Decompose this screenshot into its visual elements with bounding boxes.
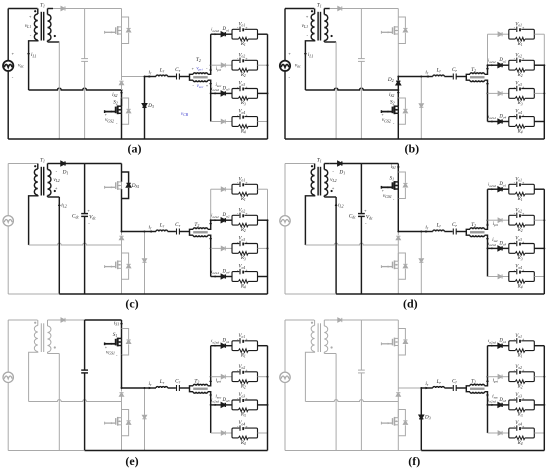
panel (e) transistor S2 gate bar [115, 418, 117, 425]
svg-text:Vo4: Vo4 [515, 265, 522, 270]
svg-text:+: + [12, 51, 15, 56]
svg-text:R4: R4 [240, 129, 246, 134]
panel (f) transformer T1 secondary winding [323, 320, 325, 326]
panel (b) battery Vo3 [516, 86, 518, 91]
panel (f) wire bridge rail top [397, 320, 399, 338]
panel (d) capacitor Cdc [358, 213, 365, 215]
panel (d) body diode S1 loop [398, 172, 405, 183]
panel (f) transformer T2 core [470, 388, 485, 390]
panel (a) battery Vo4 [239, 114, 241, 119]
panel (a) resistor R4 [238, 125, 248, 129]
panel (b) body diode S1 symbol [403, 28, 407, 32]
panel (e) diode Do2 [221, 375, 225, 379]
panel (d) wire T2 secondary to branch column down [485, 235, 488, 276]
panel (e) wire branch 3 feeder [211, 404, 221, 406]
panel (a) wire branch 4 to right rail [258, 121, 268, 123]
panel (a) transistor S1 rail through segment [121, 27, 123, 34]
svg-text:Do4: Do4 [222, 270, 230, 275]
panel (e) body diode S1 symbol [127, 340, 131, 344]
panel (e) wire branch 2 to right rail [258, 376, 268, 378]
panel (c) wire rail D2 to S2 [121, 245, 123, 253]
svg-text:+: + [245, 425, 247, 429]
panel (c) node tank junction [144, 231, 146, 233]
svg-text:Vo3: Vo3 [515, 393, 522, 398]
panel (d) node branch2 tap [487, 219, 489, 221]
panel (e) wire D3 rail upper [144, 388, 146, 415]
panel (f) diode D3 [419, 415, 423, 419]
panel (a) wire secondary top elbow [48, 8, 54, 10]
panel (a) transistor S1 drain/source taps [118, 26, 122, 28]
panel (c) body diode S2 symbol [127, 264, 131, 268]
svg-text:+: + [105, 346, 107, 350]
panel (d) transistor S1 channel bar [394, 181, 396, 190]
panel (d) wire branch 4 feeder [488, 276, 498, 278]
panel (d) wire T2 primary to branch column [485, 220, 488, 229]
panel (f) wire Cdc node to bridge rail [361, 319, 398, 321]
panel (a) battery Vo2 [239, 58, 241, 63]
panel (e) wire rail D2 to S2 [121, 402, 123, 410]
panel (b) wire branch 4 to right rail [534, 121, 544, 123]
panel (a) body diode S1 symbol [127, 28, 131, 32]
panel (d) wire rail D2 to S2 [397, 245, 399, 253]
panel (c) wire bridge rail top [121, 164, 123, 182]
panel (e) body diode S1 loop [122, 329, 129, 340]
panel (b) transistor S2 [397, 98, 399, 106]
svg-text:(f): (f) [408, 454, 420, 468]
panel (f) transistor S2 drain/source taps [395, 417, 399, 419]
panel (e) wire right rail [267, 346, 269, 451]
svg-text:R3: R3 [240, 413, 246, 418]
panel (f) wire Cdc rail lower [360, 373, 362, 451]
panel (b) labels iS2 S2 vGS2 [397, 92, 400, 96]
panel (d) node branch3 tap [487, 247, 489, 249]
panel (f) wire branch 4 feeder [488, 432, 498, 434]
svg-text:R1: R1 [517, 354, 523, 359]
panel (c) wire secondary rail [58, 197, 60, 294]
panel (d) wire rail S2 to bottom [397, 268, 399, 294]
panel (e) label ir with arrow [149, 387, 153, 390]
panel (d) wire branch 2 feeder [488, 219, 498, 221]
panel (f) wire left vertical from source [284, 320, 286, 373]
panel (f) load loop branch 4 [509, 428, 535, 438]
panel (a) wire Cdc rail upper [84, 9, 86, 59]
svg-text:Do2: Do2 [222, 213, 230, 218]
panel (e) wire bridge rail top [121, 320, 123, 338]
panel (f) body diode S2 loop [398, 410, 405, 421]
svg-text:Vo1: Vo1 [238, 334, 245, 339]
panel (f) diode Do1 [498, 344, 502, 348]
panel (d) transformer T2 secondary winding [470, 235, 485, 236]
panel (f) wire Cr to T2 [456, 387, 466, 389]
panel (f) wire D1 to Cdc node [342, 319, 362, 321]
panel (f) wire midpoint to tank node [398, 387, 421, 389]
panel (f) transistor S2 [397, 410, 399, 418]
panel (b) battery Vo2 [516, 58, 518, 63]
panel (e) wire bottom black part [85, 450, 268, 452]
panel (a) load loop branch 1 [232, 29, 258, 39]
panel (b) wire branch 3 feeder [488, 92, 498, 94]
panel (c) wire left vertical from source [7, 164, 9, 217]
svg-text:R4: R4 [240, 284, 246, 289]
panel (a) wire top-left [8, 8, 37, 10]
panel (e) load loop branch 2 [232, 372, 258, 382]
panel (c) wire branch 2 to right rail [258, 219, 268, 221]
panel (e) diode Do4 [221, 431, 225, 435]
svg-text:Vo1: Vo1 [238, 22, 245, 27]
svg-text:ipri: ipri [493, 379, 498, 384]
panel (f) transformer T2 secondary winding [470, 392, 485, 393]
panel (e) wire secondary top elbow [48, 319, 54, 321]
panel (f) diode D1 [338, 318, 342, 322]
panel (b) node branch2 tap [487, 64, 489, 66]
svg-text:vpri: vpri [196, 66, 202, 71]
panel (e) wire Cr to T2 [179, 387, 189, 389]
panel (b) diode Do2 [498, 63, 502, 67]
panel (d) AC source vac [280, 216, 290, 226]
panel (c) wire branch 2 feeder [211, 219, 221, 221]
svg-text:Vo4: Vo4 [238, 110, 245, 115]
panel (d) wire bottom black part [336, 293, 544, 295]
panel (d) load loop branch 2 [509, 215, 535, 225]
panel (e) wire Lr to Cr [168, 387, 176, 389]
svg-text:R2: R2 [240, 73, 246, 78]
panel (e) capacitor Cdc [81, 369, 88, 371]
panel (a) resistor R1 [238, 37, 248, 41]
svg-text:+: + [245, 181, 247, 185]
panel (d) load loop branch 3 [509, 244, 535, 254]
panel (c) wire branch 1 feeder [211, 188, 221, 190]
panel (a) diode D3 [142, 104, 146, 108]
panel (c) wire branch column up to branch 1 idle [210, 189, 212, 220]
panel (c) wire branch 3 feeder [211, 247, 221, 249]
panel (b) transistor S1 gate lead [381, 31, 392, 33]
panel (f) transformer T1 core [317, 323, 319, 352]
panel (b) resistor R2 [515, 68, 525, 72]
panel (d) transistor S2 gate lead [381, 266, 392, 268]
panel (a) label ir with arrow [149, 75, 153, 78]
panel (c) diode D1 [61, 161, 65, 165]
panel (d) battery Vo2 [516, 213, 518, 218]
panel (f) wire rail D2 to S2 [397, 402, 399, 410]
panel (e) transformer T2 primary winding [193, 384, 208, 385]
svg-text:Vo2: Vo2 [238, 208, 245, 213]
panel (c) diode Do1 [221, 187, 225, 191]
panel (c) inductor Lr [156, 230, 168, 231]
panel (f) wire branch 1 feeder [488, 345, 498, 347]
panel (e) wire branch 3 to right rail [258, 404, 268, 406]
panel (b) wire T2 primary to branch column [485, 65, 488, 74]
panel (b) wire Cdc node to bridge rail [361, 8, 398, 10]
svg-text:+: + [364, 208, 367, 213]
panel (f) transformer T1 primary winding [314, 320, 316, 326]
panel (c) load loop branch 2 [232, 215, 258, 225]
panel (e) load loop branch 1 [232, 341, 258, 351]
panel (a) wire primary return [29, 40, 38, 90]
svg-text:Vo2: Vo2 [238, 53, 245, 58]
panel (d) wire Cdc rail upper [360, 164, 362, 214]
panel (a) transistor S2 gate lead [105, 111, 116, 113]
svg-text:(e): (e) [125, 454, 138, 468]
svg-text:Vo3: Vo3 [238, 237, 245, 242]
panel (a) diode Do3 [221, 91, 225, 95]
panel (c) wire D3 rail upper [144, 232, 146, 259]
panel (b) wire T2 secondary to branch column down [485, 80, 488, 121]
panel (e) node tank junction [144, 387, 146, 389]
panel (e) transformer T1 primary winding [37, 320, 39, 326]
panel (f) wire branch 2 to right rail [534, 376, 544, 378]
panel (d) wire left vertical from source [284, 164, 286, 217]
panel (f) transistor S2 rail through segment [397, 418, 399, 425]
panel (d) inductor Lr [433, 230, 445, 231]
panel (e) battery Vo1 [239, 338, 241, 343]
panel (d) diode Do3 [498, 246, 502, 250]
svg-text:Vo2: Vo2 [515, 365, 522, 370]
panel (e) wire top-left [8, 319, 37, 321]
panel (e) node midpoint [121, 387, 123, 389]
panel (e) load loop branch 3 [232, 400, 258, 410]
svg-text:Vo1: Vo1 [238, 177, 245, 182]
panel (b) resistor R4 [515, 125, 525, 129]
panel (a) node branch2 tap [210, 64, 212, 66]
svg-text:R1: R1 [240, 42, 246, 47]
svg-text:(d): (d) [403, 297, 418, 311]
panel (a) wire branch 2 feeder [211, 64, 221, 66]
panel (c) wire Lr to Cr [168, 231, 176, 233]
panel (c) transistor S2 channel bar [117, 260, 119, 269]
panel (b) transistor S2 channel bar [394, 105, 396, 114]
svg-text:+: + [522, 114, 524, 118]
panel (d) wire bridge rail to midpoint [397, 199, 399, 232]
panel (e) battery Vo4 [239, 425, 241, 430]
panel (a) wire Cdc node to bridge rail [85, 8, 122, 10]
panel (c) wire branch 1 to right rail [258, 188, 268, 190]
panel (c) transformer T1 core [40, 167, 42, 196]
panel (d) wire branch 2 to right rail [534, 219, 544, 221]
svg-text:R4: R4 [517, 441, 523, 446]
panel (f) wire rail S2 to bottom [397, 425, 399, 451]
panel (f) body diode S1 loop [398, 329, 405, 340]
panel (a) wire branch 1 to right rail [258, 33, 268, 35]
panel (f) load loop branch 3 [509, 400, 535, 410]
svg-text:+: + [332, 186, 335, 191]
svg-text:Vo4: Vo4 [515, 421, 522, 426]
panel (c) wire D3 rail lower [144, 263, 146, 295]
panel (d) transformer T1 core [317, 167, 319, 196]
panel (c) battery Vo1 [239, 182, 241, 187]
svg-text:Vo3: Vo3 [515, 237, 522, 242]
panel (e) diode Do3 [221, 403, 225, 407]
panel (c) diode D2 [119, 236, 123, 240]
svg-text:Vo1: Vo1 [515, 334, 522, 339]
panel (e) transformer T1 core [40, 323, 42, 352]
svg-text:+: + [522, 369, 524, 373]
panel (a) wire branch 3 feeder [211, 92, 221, 94]
panel (e) diode D3 [142, 415, 146, 419]
panel (d) body diode S2 loop [398, 253, 405, 264]
panel (a) wire branch 3 to right rail [258, 92, 268, 94]
panel (d) load loop branch 4 [509, 272, 535, 282]
svg-text:R3: R3 [240, 101, 246, 106]
panel (a) capacitor Cdc [81, 58, 88, 60]
panel (f) node branch3 tap [487, 404, 489, 406]
panel (c) transformer T2 input bracket [190, 229, 194, 235]
panel (c) diode Do3 [221, 246, 225, 250]
panel (f) wire D3 rail lower [420, 419, 422, 451]
panel (c) wire D1 to Cdc node [65, 163, 85, 165]
panel (b) wire Cdc rail lower [360, 61, 362, 139]
panel (c) diode D3 [142, 259, 146, 263]
panel (c) wire right rail [267, 189, 269, 220]
panel (d) labels iS1 S1 vGS1 [397, 167, 400, 171]
panel (b) resistor R3 [515, 97, 525, 101]
panel (b) wire Cr to T2 [456, 76, 466, 78]
panel (b) AC source vac [280, 61, 290, 71]
svg-text:Do1: Do1 [498, 339, 506, 344]
panel (a) wire left vertical from source [7, 9, 9, 62]
panel (d) wire primary return [305, 195, 314, 245]
panel (c) wire bottom black part [59, 293, 267, 295]
panel (b) wire D1 to Cdc node [342, 8, 362, 10]
panel (e) wire rail S2 to bottom [121, 425, 123, 451]
svg-text:+: + [522, 338, 524, 342]
panel (a) wire rail D2 to S2 [121, 90, 123, 98]
panel (f) wire T2 secondary to branch column down [485, 392, 488, 433]
panel (f) AC source vac [280, 372, 290, 382]
panel (f) battery Vo2 [516, 369, 518, 374]
panel (a) wire D1 to Cdc node [65, 8, 85, 10]
svg-text:+: + [522, 212, 524, 216]
panel (e) transformer T1 secondary winding [47, 320, 49, 326]
svg-text:+: + [245, 397, 247, 401]
panel (b) label iL1 with arrow [304, 53, 307, 57]
svg-text:(c): (c) [125, 297, 138, 311]
panel (e) transistor S1 drain/source taps [118, 337, 122, 339]
panel (d) wire Cdc node to bridge rail [361, 163, 398, 165]
panel (e) wire T2 secondary to branch column down [208, 392, 211, 433]
panel (d) wire top-left [285, 163, 314, 165]
panel (c) transistor S1 rail through segment [121, 182, 123, 189]
panel (c) wire tank left [145, 231, 157, 233]
panel (a) wire D3 rail lower [144, 108, 146, 140]
panel (a) node branch3 tap [210, 92, 212, 94]
panel (a) node rail-return junction [121, 89, 123, 91]
panel (d) transformer T1 primary winding [314, 164, 316, 170]
panel (b) wire Cdc rail upper [360, 9, 362, 59]
panel (b) diode Do4 [498, 119, 502, 123]
panel (f) wire return with crossover bumps [305, 400, 398, 402]
panel (f) body diode S2 symbol [403, 421, 407, 425]
panel (f) inductor Lr [433, 387, 445, 388]
panel (b) wire Lr to Cr [444, 76, 452, 78]
panel (a) wire return with crossover bumps [29, 88, 122, 90]
svg-text:+: + [288, 51, 291, 56]
panel (f) wire branch 4 to right rail [534, 432, 544, 434]
panel (e) transistor S2 gate lead [105, 422, 116, 424]
panel (a) diode Do4 [221, 119, 225, 123]
panel (c) transistor S1 channel bar [117, 181, 119, 190]
svg-text:Vo3: Vo3 [238, 82, 245, 87]
svg-text:R2: R2 [240, 385, 246, 390]
svg-text:+: + [245, 57, 247, 61]
panel (a) load loop branch 3 [232, 89, 258, 99]
svg-text:(b): (b) [404, 142, 419, 156]
svg-text:Vo3: Vo3 [515, 82, 522, 87]
panel (f) wire branch 3 to right rail [534, 404, 544, 406]
panel (c) wire branch 4 to right rail [258, 276, 268, 278]
panel (e) wire branch 4 to right rail [258, 432, 268, 434]
svg-text:R4: R4 [517, 284, 523, 289]
svg-text:Do3: Do3 [498, 241, 506, 246]
panel (f) wire bridge rail to midpoint [397, 355, 399, 388]
panel (b) wire bottom black part [285, 138, 544, 140]
panel (c) transformer T1 primary winding [37, 164, 39, 170]
svg-text:Do4: Do4 [498, 115, 506, 120]
panel (f) resistor R4 [515, 436, 525, 440]
panel (f) wire branch 1 to right rail [534, 345, 544, 347]
panel (b) capacitor Cr [452, 74, 454, 80]
panel (f) transistor S1 gate bar [392, 339, 394, 346]
panel (a) wire secondary rail [58, 42, 60, 139]
panel (b) diode Do1 [498, 32, 502, 36]
panel (b) wire branch 1 feeder [488, 33, 498, 35]
panel (c) wire bridge rail to midpoint [121, 199, 123, 232]
panel (d) diode Do4 [498, 274, 502, 278]
panel (c) battery Vo2 [239, 213, 241, 218]
svg-text:+: + [522, 57, 524, 61]
panel (b) resistor R1 [515, 37, 525, 41]
panel (f) resistor R2 [515, 380, 525, 384]
panel (e) transistor S2 drain/source taps [118, 417, 122, 419]
svg-text:R2: R2 [517, 73, 523, 78]
panel (b) battery Vo4 [516, 114, 518, 119]
panel (f) transformer T2 primary winding [470, 384, 485, 385]
panel (a) wire bottom black part [8, 138, 267, 140]
svg-text:(a): (a) [128, 142, 142, 156]
svg-text:Vo2: Vo2 [515, 208, 522, 213]
svg-text:vsec: vsec [197, 84, 204, 89]
panel (a) resistor R2 [238, 68, 248, 72]
svg-text:+: + [245, 212, 247, 216]
panel (f) wire primary return [305, 352, 314, 402]
svg-text:R4: R4 [517, 129, 523, 134]
panel (a) diode D2 [119, 81, 123, 85]
panel (b) transformer T1 secondary winding [323, 9, 325, 15]
panel (c) body diode S1 loop [122, 172, 129, 183]
panel (f) wire T2 primary to branch column [485, 377, 488, 386]
panel (d) wire branch 1 feeder [488, 188, 498, 190]
panel (c) wire bottom gray part [8, 293, 59, 295]
panel (b) node rail-return junction [397, 89, 399, 91]
panel (a) wire rail S2 to bottom [121, 113, 123, 139]
panel (b) load loop branch 2 [509, 60, 535, 70]
panel (d) wire branch 1 to right rail [534, 188, 544, 190]
panel (d) load loop branch 1 [509, 184, 535, 194]
panel (b) node branch3 tap [487, 92, 489, 94]
panel (b) transistor S2 drain/source taps [395, 105, 399, 107]
panel (f) node branch2 tap [487, 376, 489, 378]
panel (a) wire branch column up to branch 1 [210, 34, 212, 65]
panel (b) wire left vertical from source [284, 9, 286, 62]
panel (f) diode Do4 [498, 431, 502, 435]
panel (d) resistor R1 [515, 192, 525, 196]
svg-text:+: + [245, 269, 247, 273]
panel (a) diode D1 [61, 6, 65, 10]
panel (a) transistor S2 gate bar [115, 107, 117, 114]
panel (b) node midpoint [397, 76, 399, 78]
panel (f) transistor S2 channel bar [394, 417, 396, 426]
panel (b) diode D3 [419, 104, 423, 108]
panel (d) wire bottom gray part [285, 293, 336, 295]
